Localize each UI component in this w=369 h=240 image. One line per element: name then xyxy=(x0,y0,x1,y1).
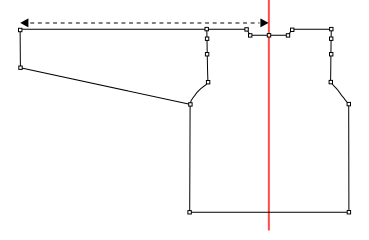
node B xyxy=(19,66,22,69)
wire: notch bottom H-J xyxy=(250,34,288,36)
wire: flap diagonal B-C xyxy=(20,68,190,105)
node A xyxy=(19,28,22,31)
dashed measurement line xyxy=(30,22,259,24)
node K xyxy=(291,28,294,31)
node E xyxy=(330,27,333,30)
wire: top line K to E xyxy=(292,28,331,30)
wire: left flap vertical A-B xyxy=(19,29,21,67)
node J xyxy=(286,34,289,37)
left arrowhead xyxy=(20,18,28,27)
node: right armhole point 3 xyxy=(329,80,332,83)
wire: right side seam F-M xyxy=(348,104,350,212)
node: left armhole point 2 xyxy=(205,53,208,56)
left armhole curve D down to C xyxy=(190,29,208,104)
center line (red vertical axis) xyxy=(268,0,270,231)
node I (center front) xyxy=(267,34,270,37)
node M xyxy=(347,211,350,214)
node L xyxy=(188,211,191,214)
node: right armhole point 1 xyxy=(330,37,333,40)
node F xyxy=(347,102,350,105)
node: left armhole point 1 xyxy=(205,37,208,40)
wire: left side seam C-L xyxy=(189,104,191,212)
wire: notch right slant J-K xyxy=(288,29,292,35)
wire: top shoulder line A to G xyxy=(20,28,247,30)
right armhole curve E down to F xyxy=(331,29,349,104)
right arrowhead xyxy=(260,18,268,27)
node G xyxy=(245,28,248,31)
wire: bottom hem L-M xyxy=(190,211,349,213)
wire: notch left slant G-H xyxy=(247,29,251,35)
node D xyxy=(205,27,208,30)
node H xyxy=(249,34,252,37)
node C xyxy=(189,103,192,106)
node: right armhole point 2 xyxy=(330,53,333,56)
node: left armhole point 3 xyxy=(206,81,209,84)
